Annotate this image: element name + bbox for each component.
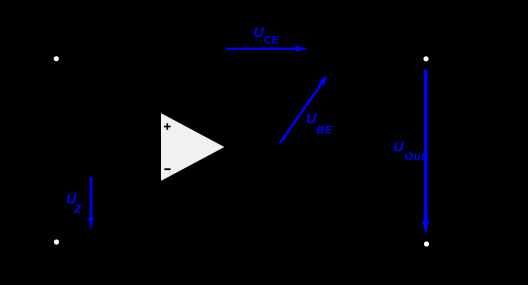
resistor R1 xyxy=(100,90,120,140)
terminal bottom-left xyxy=(53,239,59,245)
voltage arrow U_Z xyxy=(88,177,94,229)
wire resistor to zener xyxy=(109,140,111,177)
wire top rail from transistor emitter to output terminal xyxy=(292,58,427,60)
op-amp minus input sign xyxy=(164,168,170,170)
wire bottom rail xyxy=(56,243,427,245)
wire op-amp minus input feedback xyxy=(150,59,350,215)
zener diode D1 xyxy=(102,177,118,244)
terminal bottom-right xyxy=(423,241,429,247)
transistor T1 xyxy=(240,53,292,101)
svg-text:BE: BE xyxy=(316,125,332,137)
wire op-amp output to transistor base xyxy=(226,95,240,147)
svg-text:Z: Z xyxy=(73,203,82,215)
svg-text:CE: CE xyxy=(264,35,280,47)
terminal top-right xyxy=(423,56,429,62)
wire top rail from input terminal to transistor collector xyxy=(56,58,240,60)
voltage arrow U_CE xyxy=(226,46,308,52)
op-amp plus input sign xyxy=(164,123,171,130)
wire to op-amp plus input xyxy=(110,127,160,160)
svg-text:Out: Out xyxy=(405,151,426,163)
wire from top rail to resistor xyxy=(109,59,111,90)
voltage arrow U_BE xyxy=(280,75,327,143)
svg-text:U: U xyxy=(394,139,405,155)
op-amp U1 xyxy=(160,112,227,183)
voltage arrow U_out xyxy=(422,70,429,235)
terminal top-left xyxy=(53,56,59,62)
